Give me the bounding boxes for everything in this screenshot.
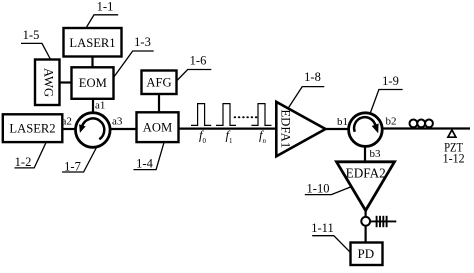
svg-text:a3: a3 xyxy=(112,116,123,128)
wire LASER2 to circulator 1-7 (port a2) xyxy=(61,128,77,130)
wire AWG to EOM xyxy=(58,81,73,83)
box EOM xyxy=(72,67,114,99)
svg-text:1-2: 1-2 xyxy=(15,155,32,169)
svg-text:1-5: 1-5 xyxy=(23,28,40,42)
svg-text:1-3: 1-3 xyxy=(134,35,151,49)
wire connector circle to PD xyxy=(365,225,367,243)
wire circulator 1-9 to EDFA2 (port b3) xyxy=(364,146,366,163)
label 1-4 leader xyxy=(134,143,165,171)
svg-text:LASER2: LASER2 xyxy=(9,122,55,136)
svg-text:PD: PD xyxy=(357,246,374,261)
svg-text:a2: a2 xyxy=(62,116,72,128)
svg-text:1-4: 1-4 xyxy=(136,157,153,171)
svg-text:b3: b3 xyxy=(370,148,382,160)
box LASER2 xyxy=(3,114,63,142)
svg-text:1-11: 1-11 xyxy=(311,221,333,235)
pulse f1 xyxy=(216,104,236,126)
svg-text:LASER1: LASER1 xyxy=(69,36,115,50)
label 1-10 leader xyxy=(305,182,351,196)
op-amp EDFA2 xyxy=(337,162,395,211)
label 1-6 leader xyxy=(177,54,212,82)
label 1-11 leader xyxy=(311,221,350,252)
label 1-1 leader xyxy=(87,0,119,27)
label 1-2 leader xyxy=(15,142,47,169)
svg-text:1-8: 1-8 xyxy=(304,70,321,84)
label 1-3 leader xyxy=(114,35,154,78)
connector circle xyxy=(361,217,370,226)
label 1-8 leader xyxy=(288,70,324,109)
svg-text:1-10: 1-10 xyxy=(307,182,330,196)
wire circulator 1-7 to AOM (port a3) xyxy=(109,128,137,130)
svg-text:EOM: EOM xyxy=(79,76,107,90)
svg-text:AOM: AOM xyxy=(143,120,172,134)
wire LASER1 to EOM xyxy=(91,55,93,69)
wire AOM to EDFA1 xyxy=(178,128,277,130)
svg-text:b2: b2 xyxy=(386,116,397,128)
wire EDFA1 to circulator 1-9 (port b1) xyxy=(324,128,348,130)
svg-text:EDFA2: EDFA2 xyxy=(346,165,386,180)
svg-text:AFG: AFG xyxy=(146,75,171,89)
svg-text:1-9: 1-9 xyxy=(382,74,399,88)
svg-text:1-12: 1-12 xyxy=(443,150,465,165)
wire EOM to circulator 1-7 (port a1) xyxy=(92,98,94,114)
svg-text:a1: a1 xyxy=(95,100,105,112)
transducer PZT triangle xyxy=(448,130,456,137)
box PD xyxy=(351,243,383,266)
box AOM xyxy=(137,112,179,142)
wire EDFA2 to connector circle xyxy=(365,208,367,218)
svg-text:b1: b1 xyxy=(337,116,348,128)
label 1-7 leader xyxy=(62,147,97,174)
svg-text:1-1: 1-1 xyxy=(97,0,114,14)
fiber coil xyxy=(410,120,433,128)
svg-text:AWG: AWG xyxy=(42,68,56,97)
pulse fn xyxy=(251,104,271,126)
label 1-9 leader xyxy=(371,74,403,113)
fiber end comb xyxy=(371,216,397,227)
op-amp EDFA1 xyxy=(276,102,325,157)
circulator 1-7 xyxy=(76,113,111,148)
circulator 1-9 xyxy=(349,113,383,147)
dots between pulses xyxy=(234,116,258,118)
wire AFG to AOM xyxy=(158,94,160,113)
wire circulator 1-9 to fiber end (port b2) xyxy=(382,127,470,129)
pulse f0 xyxy=(191,104,211,126)
box LASER1 xyxy=(64,28,122,57)
box AWG xyxy=(35,60,60,106)
label 1-5 leader xyxy=(21,28,50,59)
box AFG xyxy=(142,71,177,95)
svg-text:1-6: 1-6 xyxy=(190,54,207,68)
svg-text:EDFA1: EDFA1 xyxy=(279,109,293,148)
